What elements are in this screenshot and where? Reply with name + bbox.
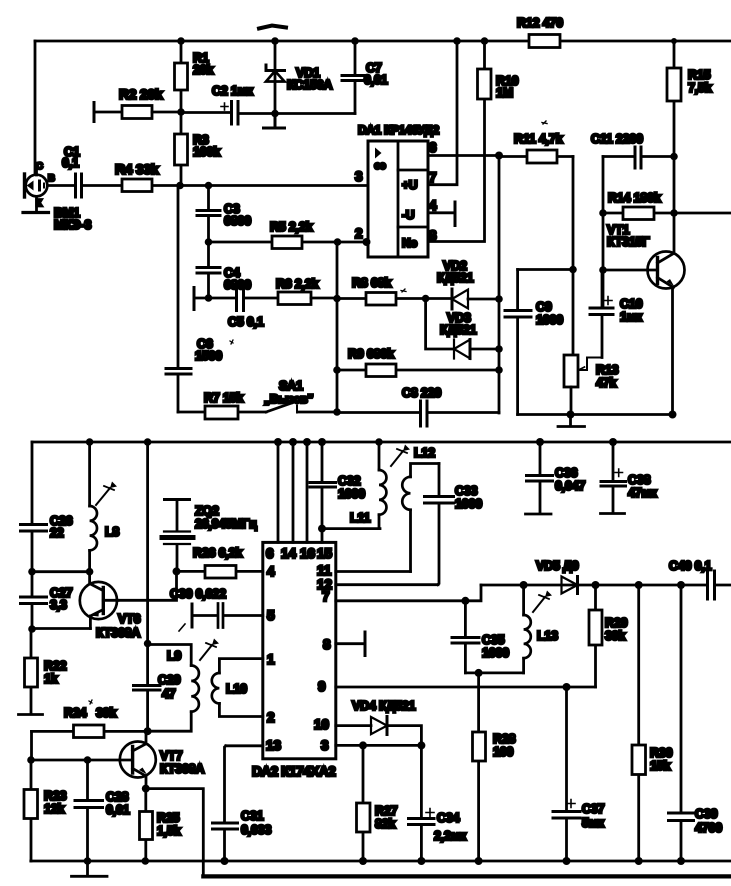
label C33 1000 — [455, 484, 482, 511]
node rail R30 — [635, 857, 643, 865]
svg-text:C: C — [36, 161, 43, 172]
node R1 bottom junction — [177, 108, 185, 116]
label C29 47 — [158, 673, 181, 701]
svg-text:„Вызов”: „Вызов” — [264, 392, 313, 406]
svg-text:100: 100 — [493, 745, 514, 759]
svg-text:39k: 39k — [96, 706, 117, 720]
resistor R11 — [499, 150, 573, 163]
trimmer arrow of L13 — [533, 591, 552, 613]
node top rail at R1 — [177, 37, 185, 45]
node pin2 left — [334, 238, 342, 246]
svg-text:11: 11 — [317, 563, 332, 578]
resistor R25 — [140, 789, 153, 861]
svg-text:C5 0,1: C5 0,1 — [228, 315, 264, 329]
trimmer arrow of L9 — [200, 639, 219, 661]
trimmer arrow of L12 — [391, 445, 410, 467]
label VD4 KD521 — [352, 699, 416, 713]
svg-text:L8: L8 — [105, 525, 119, 539]
svg-text:4: 4 — [267, 564, 275, 579]
wire R24 R23 column — [30, 731, 33, 760]
wire left column to microphone — [34, 41, 37, 174]
svg-text:КС156А: КС156А — [287, 78, 332, 92]
wire pin 8 terminal — [336, 642, 365, 645]
wire R1 R3 column — [180, 41, 183, 185]
transistor VT7 — [120, 731, 156, 788]
wire R11 down to R13 — [572, 157, 575, 356]
svg-text:100k: 100k — [193, 145, 220, 159]
wire C26 C27 column — [31, 442, 34, 629]
resistor R4 — [122, 179, 152, 192]
node pin9 C37 junction — [563, 683, 571, 691]
capacitor C2 polarized — [221, 102, 238, 125]
wire C26 to L8 bottom — [32, 570, 90, 573]
node rail at R10 — [481, 37, 489, 45]
svg-text:L12: L12 — [414, 446, 435, 460]
label C8 220 — [402, 386, 441, 400]
label R15 7,5k — [688, 68, 712, 95]
node rail pin16 — [303, 438, 311, 446]
svg-text:C9: C9 — [536, 300, 552, 314]
svg-text:5мк: 5мк — [582, 816, 605, 830]
svg-text:R7 15k: R7 15k — [204, 391, 243, 405]
node rail C34 — [417, 857, 425, 865]
node C35 top — [461, 597, 469, 605]
svg-text:МКЭ-3: МКЭ-3 — [54, 218, 91, 232]
wire oscillator column x147 — [146, 442, 149, 644]
label L8 — [105, 525, 119, 539]
label C7 0,01 — [364, 61, 388, 87]
inductor L10 — [212, 659, 263, 717]
label C26 22 — [50, 514, 73, 540]
node C11 right — [670, 153, 678, 161]
svg-text:L9: L9 — [167, 649, 181, 663]
resistor R6 — [278, 292, 337, 305]
zener diode VD1 — [266, 41, 285, 113]
label L13 — [537, 629, 558, 643]
ground under VD1 — [264, 114, 285, 129]
label C40 0,1 — [669, 559, 712, 573]
node C4 bottom — [205, 294, 213, 302]
node C28 top — [84, 756, 92, 764]
node R6 right junction — [333, 295, 341, 303]
svg-text:C35: C35 — [482, 633, 505, 647]
node x147 rail — [144, 438, 152, 446]
svg-text:0,01: 0,01 — [106, 803, 130, 817]
node rail C37 — [563, 857, 571, 865]
svg-text:7: 7 — [429, 170, 437, 185]
node R14 right — [670, 209, 678, 217]
resistor R3 — [175, 134, 188, 165]
wire pin 2 — [337, 241, 368, 244]
wire bottom section supply rail — [32, 441, 731, 444]
node C9 branch junction — [569, 266, 577, 274]
svg-text:3: 3 — [355, 169, 363, 184]
ground under R22 — [19, 713, 43, 716]
pin number 9 of DA2 — [318, 679, 326, 694]
resistor R30 — [632, 585, 646, 861]
svg-text:C40 0,1: C40 0,1 — [669, 559, 712, 573]
svg-text:Nc: Nc — [402, 236, 417, 250]
svg-text:КТ368А: КТ368А — [160, 762, 204, 776]
pencil mark above rail — [259, 26, 286, 29]
label R28 100 — [493, 732, 516, 759]
capacitor C37 polarized — [553, 687, 580, 861]
svg-text:1000: 1000 — [482, 646, 509, 660]
label VT1 KT315G — [607, 223, 649, 249]
pin number 7 — [429, 170, 437, 185]
svg-text:+U: +U — [402, 178, 417, 192]
terminal open at pin 8 — [364, 632, 367, 656]
pin number 1 of DA2 — [267, 652, 275, 667]
capacitor C8 with wires — [337, 401, 499, 426]
label C11 2200 — [591, 132, 643, 146]
node R9 left — [333, 366, 341, 374]
svg-text:R30: R30 — [650, 746, 673, 760]
label R12 470 — [517, 16, 563, 30]
inductor L8 — [90, 442, 97, 572]
node rail pin6 — [274, 438, 282, 446]
label C27 3,3 — [50, 586, 73, 612]
node tank top junction — [144, 640, 152, 648]
pin number 13 of DA2 — [266, 738, 282, 753]
capacitor C33 — [336, 464, 454, 585]
resistor R22 — [25, 629, 38, 714]
pin number 2 — [355, 226, 363, 241]
node rail R25 — [142, 857, 150, 865]
node tank bottom junction — [144, 727, 152, 735]
capacitor C38 polarized — [601, 442, 626, 514]
pin number 11 of DA2 — [317, 563, 332, 578]
svg-text:82k: 82k — [375, 817, 396, 831]
capacitor C11 with wires — [603, 147, 674, 168]
resistor R23 — [24, 760, 38, 861]
resistor R5 with wires — [209, 236, 338, 249]
label R5 2,2k — [270, 220, 313, 234]
node C3 bottom — [205, 238, 213, 246]
wire C35 to L13 bottom — [465, 672, 523, 675]
wire top supply rail — [35, 40, 731, 43]
svg-text:1000: 1000 — [536, 313, 563, 327]
svg-text:6: 6 — [266, 546, 274, 561]
label C35 1000 — [482, 633, 509, 660]
wire C9 branch — [518, 268, 573, 271]
capacitor C29 — [134, 644, 161, 732]
svg-text:R26 6,2k: R26 6,2k — [193, 546, 242, 560]
svg-text:0,047: 0,047 — [555, 479, 586, 493]
svg-text:R6 2,2k: R6 2,2k — [276, 277, 319, 291]
label C36 0,047 — [555, 466, 586, 493]
svg-text:C32: C32 — [338, 474, 361, 488]
node C26 bottom — [28, 568, 36, 576]
svg-text:13: 13 — [266, 738, 282, 753]
svg-text:1000: 1000 — [338, 487, 365, 501]
node C27 bottom — [28, 625, 36, 633]
wire VT6 collector — [118, 571, 177, 600]
svg-text:R25: R25 — [157, 811, 180, 825]
svg-text:C36: C36 — [555, 466, 578, 480]
svg-text:47мк: 47мк — [628, 486, 658, 500]
svg-text:VT7: VT7 — [160, 749, 183, 763]
pin number 7 of DA2 — [322, 589, 330, 604]
label R24 39k — [64, 700, 117, 720]
pin number 4 — [429, 198, 437, 213]
pin number 8 of DA2 — [323, 637, 331, 652]
label C9 1000 — [536, 300, 563, 327]
capacitor C28 — [75, 760, 103, 861]
svg-text:22: 22 — [50, 526, 64, 540]
IC DA2 box — [263, 542, 336, 758]
label VT7 KT368A — [160, 749, 204, 776]
capacitor C6 — [166, 186, 191, 413]
label C10 1mk — [620, 297, 643, 324]
capacitor C5 with wires — [194, 284, 278, 311]
capacitor C39 — [669, 585, 694, 861]
node rail C39 — [677, 857, 685, 865]
pin number 14 of DA2 — [281, 546, 297, 561]
svg-text:КТ368А: КТ368А — [96, 626, 140, 640]
resistor R14 with wire — [603, 207, 674, 220]
node VD2 junction x499 — [495, 295, 503, 303]
node rail pin14 — [289, 438, 297, 446]
capacitor C27 — [21, 597, 47, 604]
node rail at x457 — [453, 37, 461, 45]
svg-text:47k: 47k — [596, 376, 617, 390]
resistor R2 — [122, 106, 152, 119]
label R22 1k — [44, 659, 67, 686]
svg-text:2: 2 — [267, 710, 275, 725]
pin number 3 of DA2 — [321, 738, 329, 753]
svg-text:R12 470: R12 470 — [517, 16, 563, 30]
label VD2 KD521 — [437, 259, 474, 285]
resistor R8 with wires — [337, 293, 452, 306]
resistor R28 — [473, 673, 486, 861]
capacitor C40 — [708, 571, 715, 599]
label L10 — [226, 682, 247, 696]
label DA2 K174XA2 — [252, 764, 335, 779]
label R6 2,2k — [276, 277, 319, 291]
wire R1 junction to C2 — [181, 111, 229, 114]
diode VD3 — [454, 340, 499, 359]
node VD1 top rail — [271, 37, 279, 45]
label R25 1,5k — [157, 811, 181, 838]
svg-text:C38: C38 — [628, 473, 651, 487]
label R4 33k — [115, 161, 159, 177]
pin number 8 — [429, 228, 437, 243]
node VD1 bottom junction — [271, 110, 279, 118]
capacitor C7 — [342, 41, 368, 114]
svg-text:1500: 1500 — [195, 349, 222, 363]
pin number 3 — [355, 169, 363, 184]
inductor L9 — [148, 645, 199, 732]
label DA1 KR140UD2 — [358, 123, 440, 137]
svg-text:C2 1мк: C2 1мк — [212, 84, 254, 98]
svg-text:26,945МГц: 26,945МГц — [195, 517, 257, 531]
wire R2 input — [94, 111, 122, 114]
node emitter bottom — [669, 411, 677, 419]
svg-text:1: 1 — [267, 652, 275, 667]
svg-text:C11 2200: C11 2200 — [591, 132, 643, 146]
ground below R13 — [558, 415, 585, 427]
wire R2 to R1 bottom — [152, 111, 181, 114]
capacitor C3 — [197, 186, 220, 243]
label C30 0,022 — [170, 587, 226, 631]
svg-text:1000: 1000 — [455, 497, 482, 511]
svg-text:R2 20k: R2 20k — [119, 86, 163, 102]
svg-text:1М: 1М — [496, 86, 513, 100]
pin number 6 — [429, 140, 437, 155]
capacitor C31 — [213, 823, 238, 861]
wire pin 4 — [428, 211, 455, 214]
svg-text:6: 6 — [429, 140, 437, 155]
label C37 5mk — [582, 802, 605, 830]
node R14 left — [599, 209, 607, 217]
terminal open at C30 — [191, 604, 194, 627]
resistor R15 — [667, 41, 681, 252]
label C6 1500 — [195, 337, 233, 363]
diode VD2 — [452, 289, 499, 309]
pin number 15 of DA2 — [317, 546, 333, 561]
wire pin 3 — [336, 744, 422, 747]
label C3 6800 — [224, 202, 251, 228]
pin number 12 of DA2 — [317, 577, 332, 592]
node rail C31 — [221, 857, 229, 865]
svg-text:К: К — [36, 198, 42, 209]
wire bottom rail — [31, 860, 731, 863]
wire emitter to bottom bus — [146, 789, 204, 877]
svg-text:В: В — [48, 173, 55, 184]
label L9 — [167, 649, 181, 663]
node L13 top — [520, 581, 528, 589]
resistor R26 with wires — [177, 566, 263, 579]
node rail end R15 — [671, 38, 677, 44]
svg-text:VT6: VT6 — [118, 612, 141, 626]
node C39 top — [677, 581, 685, 589]
pin number 6 of DA2 — [266, 546, 274, 561]
label C28 0,01 — [106, 790, 130, 817]
label C1 0,1 — [62, 145, 80, 170]
svg-text:C28: C28 — [106, 790, 129, 804]
node R29 top — [592, 581, 600, 589]
svg-text:C30 0,022: C30 0,022 — [170, 587, 226, 601]
label R29 39k — [605, 616, 628, 643]
svg-text:R23: R23 — [44, 789, 67, 803]
svg-text:R24: R24 — [64, 706, 87, 720]
label R27 82k — [375, 804, 398, 831]
node C3 top junction — [205, 182, 213, 190]
microphone pin label C — [36, 161, 43, 172]
svg-text:12k: 12k — [44, 802, 65, 816]
svg-text:R13: R13 — [596, 363, 619, 377]
label C38 47mk — [628, 473, 658, 500]
quartz crystal ZQ2 — [162, 500, 193, 572]
wire C2 to VD1 to C7 — [240, 112, 355, 115]
node rail R28 — [475, 857, 483, 865]
transistor VT1 — [648, 252, 685, 415]
node VD3 junction x499 — [495, 345, 503, 353]
label BM1 MKE-3 — [54, 206, 91, 232]
svg-text:16: 16 — [300, 546, 316, 561]
label VD5 D9 — [536, 559, 579, 573]
resistor R24 with wires — [32, 725, 148, 738]
svg-text:C29: C29 — [158, 673, 181, 687]
node R28 top — [475, 669, 483, 677]
svg-text:L10: L10 — [226, 682, 247, 696]
node SA1 junction — [333, 408, 341, 416]
op-amp DA1 box — [368, 141, 428, 257]
wire pin 16 column — [306, 442, 309, 542]
svg-text:R28: R28 — [493, 732, 516, 746]
svg-text:20k: 20k — [193, 63, 214, 77]
svg-text:∞: ∞ — [374, 156, 386, 175]
capacitor C9 — [505, 270, 531, 415]
label C4 6800 — [224, 266, 251, 292]
label C32 1000 — [338, 474, 365, 501]
capacitor C4 — [197, 242, 220, 298]
node R13 bottom — [567, 411, 575, 419]
resistor R12 on rail — [529, 35, 560, 48]
svg-text:R22: R22 — [44, 659, 67, 673]
svg-text:C8 220: C8 220 — [402, 386, 441, 400]
capacitor C1 — [76, 174, 82, 197]
inductor L12 — [336, 464, 439, 572]
svg-text:14: 14 — [281, 546, 297, 561]
svg-text:1,5k: 1,5k — [157, 824, 181, 838]
wire feedback column x499 — [498, 156, 501, 414]
svg-text:КД521: КД521 — [437, 271, 474, 285]
node rail C32 — [318, 438, 326, 446]
terminal open at C5 — [193, 288, 196, 310]
wire bottom bus line — [203, 874, 731, 878]
svg-text:DA1 КР140УД2: DA1 КР140УД2 — [358, 123, 440, 137]
node L8 rail — [86, 438, 94, 446]
svg-text:4: 4 — [429, 198, 437, 213]
label R11 4,7k — [514, 121, 563, 146]
label VD3 KD521 — [440, 311, 477, 337]
svg-text:47: 47 — [162, 687, 176, 701]
wire pin 9 — [336, 686, 596, 689]
node R27 top — [359, 741, 367, 749]
wire pin 7 output — [336, 585, 481, 601]
svg-text:КТ315Г: КТ315Г — [607, 235, 649, 249]
capacitor C35 — [452, 601, 479, 673]
node R3 bottom junction — [176, 182, 184, 190]
resistor R29 — [589, 585, 602, 687]
capacitor C36 — [526, 442, 553, 514]
terminal open input left of R2 — [93, 103, 96, 122]
node rail C36 — [536, 438, 544, 446]
node rail C38 — [609, 438, 617, 446]
svg-text:DA2 К174ХА2: DA2 К174ХА2 — [252, 764, 335, 779]
wire pin 13 to C31 — [225, 746, 263, 823]
wire pin 6 column — [277, 442, 280, 542]
svg-text:5: 5 — [267, 608, 275, 623]
svg-text:7,5k: 7,5k — [688, 81, 712, 95]
wire VT6 emitter to C27 — [32, 627, 90, 630]
svg-text:15k: 15k — [650, 759, 671, 773]
label VD1 KS156A — [287, 66, 332, 92]
microphone BM1 — [23, 163, 49, 213]
node rail C28 — [84, 857, 92, 865]
svg-text:1мк: 1мк — [620, 310, 643, 324]
node L11 rail — [375, 438, 383, 446]
label C31 0,033 — [241, 809, 272, 837]
inductor L11 — [379, 442, 386, 529]
node C34 top — [417, 741, 425, 749]
svg-text:R8 68k: R8 68k — [352, 276, 391, 290]
svg-text:4700: 4700 — [695, 821, 722, 835]
svg-text:L11: L11 — [350, 511, 370, 525]
svg-text:ZQ2: ZQ2 — [195, 504, 219, 518]
